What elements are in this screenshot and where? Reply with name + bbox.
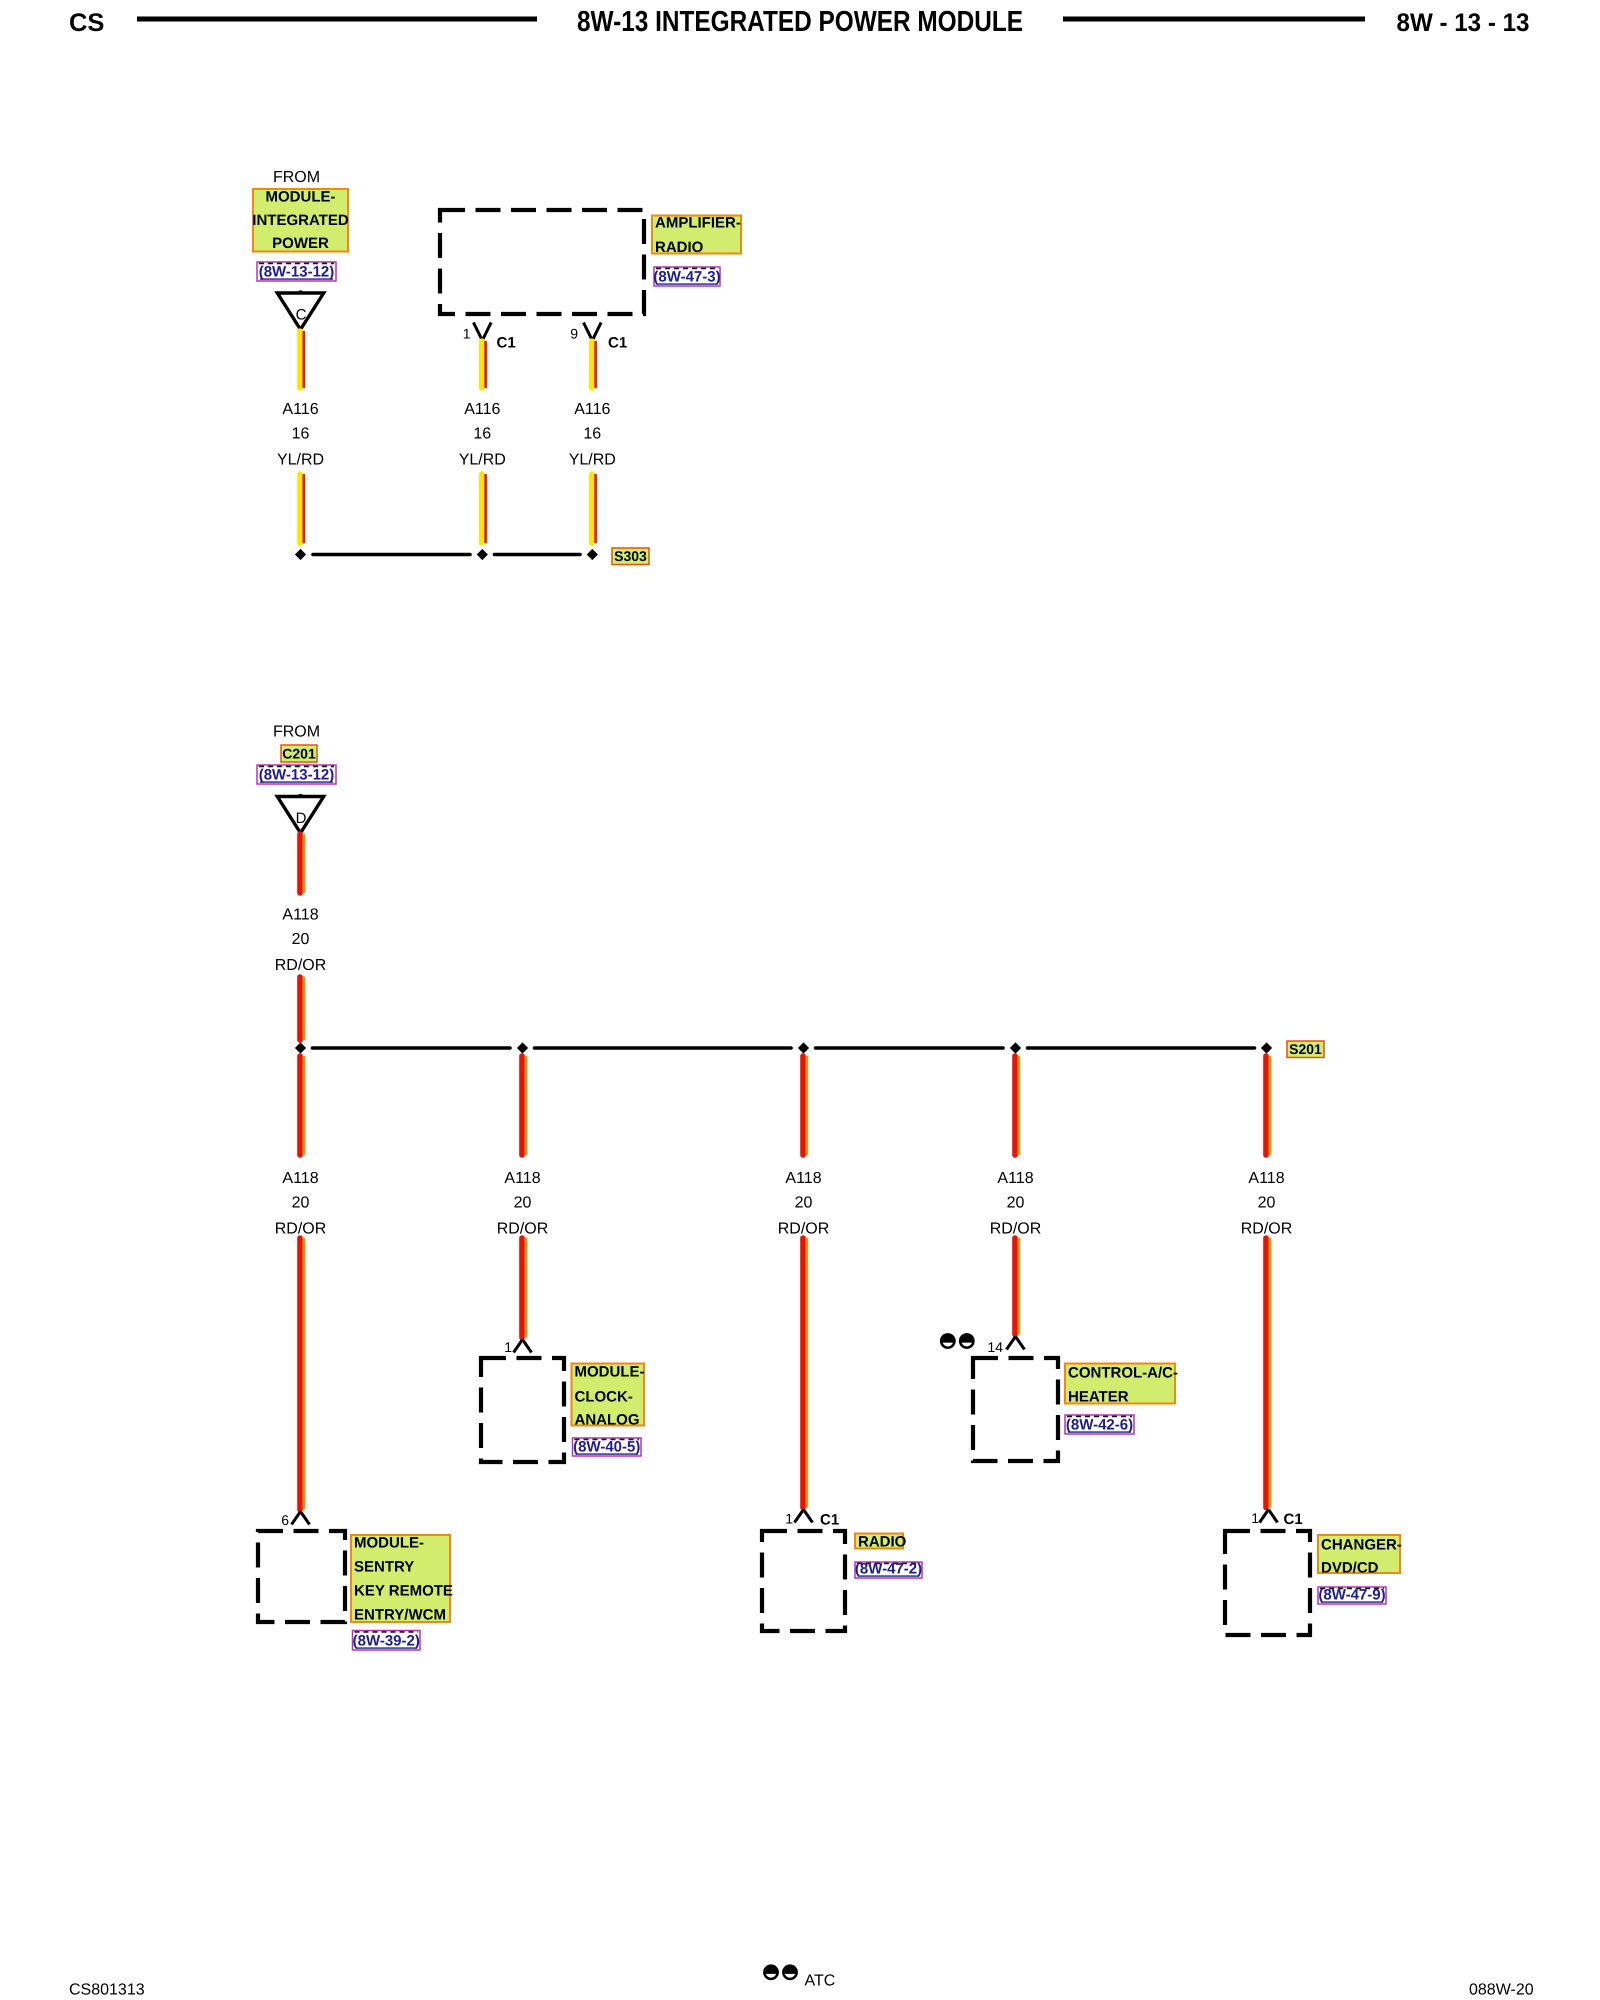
label MODULE-CLOCK-ANALOG — [572, 1364, 645, 1429]
svg-text:MODULE-: MODULE- — [354, 1535, 424, 1552]
wire A116 segment from C — [300, 331, 304, 388]
svg-text:A118: A118 — [282, 907, 318, 924]
splice label S201 — [1287, 1041, 1324, 1058]
off-page connector D — [277, 794, 323, 833]
svg-text:CHANGER-: CHANGER- — [1321, 1537, 1402, 1554]
svg-text:A118: A118 — [997, 1170, 1033, 1187]
svg-text:20: 20 — [1007, 1195, 1025, 1212]
svg-text:(8W-13-12): (8W-13-12) — [259, 767, 335, 784]
junction S201 c — [798, 1042, 809, 1053]
wire A118 branch 2 upper — [522, 1056, 526, 1155]
connector box MODULE-CLOCK-ANALOG — [481, 1358, 564, 1462]
svg-text:1: 1 — [504, 1339, 512, 1355]
svg-text:1: 1 — [463, 326, 471, 342]
svg-text:14: 14 — [987, 1339, 1003, 1355]
svg-text:C201: C201 — [282, 746, 316, 762]
svg-text:RADIO: RADIO — [655, 239, 704, 256]
svg-text:RD/OR: RD/OR — [275, 957, 327, 974]
svg-text:CS801313: CS801313 — [69, 1982, 145, 1999]
pin 14 connector chevron (a/c control) — [1007, 1337, 1025, 1350]
svg-text:ANALOG: ANALOG — [575, 1412, 640, 1429]
svg-text:CLOCK-: CLOCK- — [575, 1389, 633, 1406]
wire A118 branch 3 upper — [803, 1056, 807, 1155]
wire A118 branch 4 lower — [1015, 1238, 1019, 1335]
svg-text:YL/RD: YL/RD — [459, 452, 506, 469]
splice label S303 — [612, 548, 649, 565]
pin 1 connector Y (amplifier) — [474, 323, 492, 341]
svg-text:INTEGRATED: INTEGRATED — [252, 212, 349, 229]
wire A118 branch 1 upper — [300, 1056, 304, 1155]
link 8W-13-12 (bottom) — [257, 765, 336, 784]
svg-text:9: 9 — [570, 326, 578, 342]
svg-text:A116: A116 — [574, 401, 610, 418]
wire A118 from D — [300, 834, 304, 893]
svg-text:RD/OR: RD/OR — [778, 1221, 830, 1238]
wire A118 branch 5 lower — [1266, 1238, 1270, 1508]
pin 9 connector Y (amplifier) — [584, 323, 602, 341]
svg-text:CS: CS — [69, 9, 104, 37]
splice bus S303 — [313, 553, 580, 557]
link 8W-47-2 — [855, 1561, 922, 1579]
svg-text:20: 20 — [514, 1195, 532, 1212]
svg-text:(8W-13-12): (8W-13-12) — [259, 264, 335, 281]
junction S201 b — [517, 1042, 528, 1053]
svg-text:A116: A116 — [282, 401, 318, 418]
svg-text:20: 20 — [292, 931, 310, 948]
svg-text:ATC: ATC — [805, 1973, 836, 1990]
svg-text:16: 16 — [473, 426, 491, 443]
off-page connector C — [277, 291, 323, 330]
svg-text:AMPLIFIER-: AMPLIFIER- — [655, 215, 741, 232]
svg-text:RD/OR: RD/OR — [275, 1221, 327, 1238]
svg-text:(8W-40-5): (8W-40-5) — [573, 1439, 640, 1456]
header rule left — [137, 17, 537, 22]
svg-text:DVD/CD: DVD/CD — [1321, 1560, 1379, 1577]
link 8W-47-9 — [1318, 1587, 1386, 1605]
connector box CONTROL-A/C-HEATER — [973, 1358, 1058, 1461]
pin 1 connector chevron (changer) — [1260, 1510, 1278, 1523]
link 8W-13-12 (top) — [257, 262, 336, 281]
label RADIO — [855, 1534, 907, 1551]
pin 1 connector chevron (clock module) — [514, 1340, 532, 1353]
junction at S303 (middle) — [477, 549, 488, 560]
svg-text:C1: C1 — [497, 335, 516, 352]
svg-text:SENTRY: SENTRY — [354, 1559, 414, 1576]
wire A116 to splice S303 (middle) — [482, 474, 486, 543]
wire A118 branch 5 upper — [1266, 1056, 1270, 1155]
link 8W-40-5 — [573, 1438, 642, 1456]
wire A118 branch 2 lower — [522, 1238, 526, 1338]
svg-text:(8W-47-2): (8W-47-2) — [855, 1561, 922, 1578]
svg-text:S201: S201 — [1289, 1041, 1322, 1057]
connector box RADIO — [762, 1531, 845, 1631]
wire A116 from amplifier pin 9 — [592, 341, 596, 388]
label MODULE-SENTRY KEY REMOTE ENTRY/WCM — [351, 1535, 453, 1624]
svg-text:1: 1 — [1251, 1510, 1259, 1526]
svg-text:A116: A116 — [464, 401, 500, 418]
wire A116 from amplifier pin 1 — [482, 341, 486, 388]
svg-text:YL/RD: YL/RD — [277, 452, 324, 469]
icon ATC (footer) — [763, 1964, 798, 1980]
svg-text:16: 16 — [583, 426, 601, 443]
svg-text:20: 20 — [1258, 1195, 1276, 1212]
svg-text:8W-13 INTEGRATED POWER MODULE: 8W-13 INTEGRATED POWER MODULE — [577, 6, 1023, 38]
wire A118 branch 1 lower — [300, 1238, 304, 1510]
label AMPLIFIER-RADIO — [652, 215, 741, 257]
wire A118 branch 4 upper — [1015, 1056, 1019, 1155]
splice bus S201 — [313, 1046, 1255, 1050]
label CONTROL-A/C-HEATER — [1065, 1364, 1178, 1406]
pin 1 connector chevron (radio) — [795, 1510, 813, 1523]
svg-text:1: 1 — [785, 1511, 793, 1527]
svg-text:A118: A118 — [785, 1170, 821, 1187]
link 8W-47-3 — [653, 267, 720, 286]
svg-text:20: 20 — [292, 1195, 310, 1212]
link 8W-42-6 — [1065, 1415, 1134, 1434]
svg-text:RD/OR: RD/OR — [1241, 1221, 1293, 1238]
junction at S303 (right) — [587, 549, 598, 560]
svg-text:RADIO: RADIO — [858, 1534, 907, 1551]
svg-text:6: 6 — [281, 1512, 289, 1528]
svg-text:A118: A118 — [504, 1170, 540, 1187]
header rule right — [1063, 17, 1365, 22]
wire A116 to splice S303 (left) — [300, 474, 304, 543]
svg-text:D: D — [296, 810, 307, 827]
svg-text:RD/OR: RD/OR — [990, 1221, 1042, 1238]
svg-text:(8W-47-3): (8W-47-3) — [653, 269, 720, 286]
svg-text:(8W-42-6): (8W-42-6) — [1066, 1417, 1133, 1434]
svg-text:HEATER: HEATER — [1068, 1389, 1129, 1406]
svg-text:FROM: FROM — [273, 724, 320, 741]
svg-text:(8W-47-9): (8W-47-9) — [1318, 1587, 1385, 1604]
icon A/C control (heater) — [940, 1333, 975, 1349]
link 8W-39-2 — [353, 1631, 421, 1651]
svg-text:A118: A118 — [1248, 1170, 1284, 1187]
svg-text:POWER: POWER — [272, 235, 329, 252]
label MODULE-INTEGRATED POWER — [252, 189, 349, 253]
svg-text:A118: A118 — [282, 1170, 318, 1187]
svg-text:S303: S303 — [614, 548, 647, 564]
svg-text:16: 16 — [292, 426, 310, 443]
svg-text:C1: C1 — [1284, 1511, 1303, 1528]
svg-text:(8W-39-2): (8W-39-2) — [353, 1633, 420, 1650]
svg-text:C1: C1 — [820, 1512, 839, 1529]
svg-text:ENTRY/WCM: ENTRY/WCM — [354, 1607, 446, 1624]
svg-text:20: 20 — [795, 1195, 813, 1212]
svg-text:CONTROL-A/C-: CONTROL-A/C- — [1068, 1365, 1178, 1382]
junction at S303 (left) — [295, 549, 306, 560]
wire A118 to splice S201 — [300, 977, 304, 1040]
wire A116 to splice S303 (right) — [592, 474, 596, 543]
svg-text:C1: C1 — [608, 335, 627, 352]
svg-text:088W-20: 088W-20 — [1469, 1982, 1534, 1999]
connector label C201 — [281, 745, 317, 762]
svg-text:KEY REMOTE: KEY REMOTE — [354, 1583, 453, 1600]
svg-text:MODULE-: MODULE- — [266, 189, 336, 206]
junction S201 d — [1010, 1042, 1021, 1053]
svg-text:RD/OR: RD/OR — [497, 1221, 549, 1238]
junction S201 a — [295, 1042, 306, 1053]
svg-text:MODULE-: MODULE- — [575, 1364, 645, 1381]
svg-text:8W - 13 - 13: 8W - 13 - 13 — [1397, 9, 1530, 37]
label CHANGER-DVD/CD — [1318, 1535, 1402, 1577]
connector box AMPLIFIER-RADIO — [440, 210, 644, 314]
wire A118 branch 3 lower — [803, 1238, 807, 1508]
svg-text:FROM: FROM — [273, 169, 320, 186]
connector box CHANGER-DVD/CD — [1225, 1531, 1310, 1635]
svg-text:YL/RD: YL/RD — [569, 452, 616, 469]
pin 6 connector chevron (sentry module) — [292, 1512, 310, 1525]
svg-text:C: C — [296, 307, 307, 324]
connector box MODULE-SENTRY KEY REMOTE ENTRY/WCM — [258, 1531, 345, 1622]
junction S201 e — [1261, 1042, 1272, 1053]
